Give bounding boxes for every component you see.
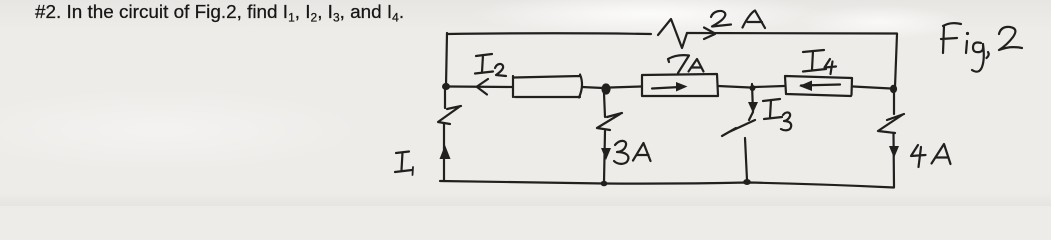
wire left vertical below node [444, 89, 446, 108]
label I1 [395, 152, 413, 176]
arrowhead 2A right [704, 28, 715, 40]
label 3A [614, 141, 651, 164]
label I2 [475, 54, 506, 76]
node E (3A bottom junction) [601, 181, 608, 187]
arrowhead 4A down [889, 146, 899, 158]
current source break (zigzag) on top wire [658, 19, 687, 48]
node D (right middle junction) [890, 85, 897, 93]
resistor R3 (I4 box) [785, 76, 852, 96]
label 4A [911, 144, 951, 167]
wire top left-to-zigzag [447, 32, 651, 35]
wire right vertical below node [893, 91, 895, 114]
current source break on 3A branch [597, 113, 622, 130]
wire right vertical upper [895, 34, 897, 87]
arrow inside R3 (left) [799, 81, 840, 92]
arrowhead I1 up [440, 145, 451, 159]
node F (I3 bottom junction) [743, 179, 751, 185]
arrowhead 3A down [601, 148, 611, 160]
wire 3A branch upper [604, 93, 605, 117]
wire R3 to right node [853, 87, 891, 89]
wire between R1 and node B [582, 87, 603, 88]
label Fig. 2 [941, 23, 1022, 72]
resistor R1 (empty box) [513, 75, 582, 98]
wire left vertical upper [446, 33, 447, 86]
current source break on right wire [878, 114, 904, 133]
current source break on left wire [438, 106, 461, 124]
wire bottom [440, 181, 894, 188]
arrowhead I2 left [477, 79, 488, 95]
problem text [35, 2, 404, 25]
wire I3-junction to R3 [755, 86, 784, 87]
label 2A [711, 11, 765, 29]
wire I3 branch upper [749, 84, 753, 120]
node A (left middle junction) [442, 83, 450, 90]
wire right vertical lower [892, 133, 895, 187]
wire left vertical lower [443, 124, 445, 181]
resistor R2 (7A box) [642, 74, 718, 96]
current source break on I3 branch [722, 120, 755, 136]
arrow inside R2 (right) [652, 82, 688, 92]
wire 3A branch lower [604, 131, 605, 182]
node B (3A junction top) [601, 83, 610, 94]
wire middle left segment [449, 85, 512, 88]
wire node B to R2 [610, 87, 641, 88]
node C (I3 junction) [750, 85, 756, 91]
wire I3 branch lower [745, 138, 747, 180]
arrowhead I3 down [748, 102, 758, 113]
label 7A [668, 55, 704, 73]
wire R2 to I3 junction [718, 86, 750, 88]
label I4 [803, 50, 836, 74]
wire top zigzag-to-right-corner [687, 32, 897, 35]
label I3 [763, 99, 791, 130]
svg-text:#2. In the circuit of Fig.2, f: #2. In the circuit of Fig.2, find I1, I2… [35, 2, 404, 25]
